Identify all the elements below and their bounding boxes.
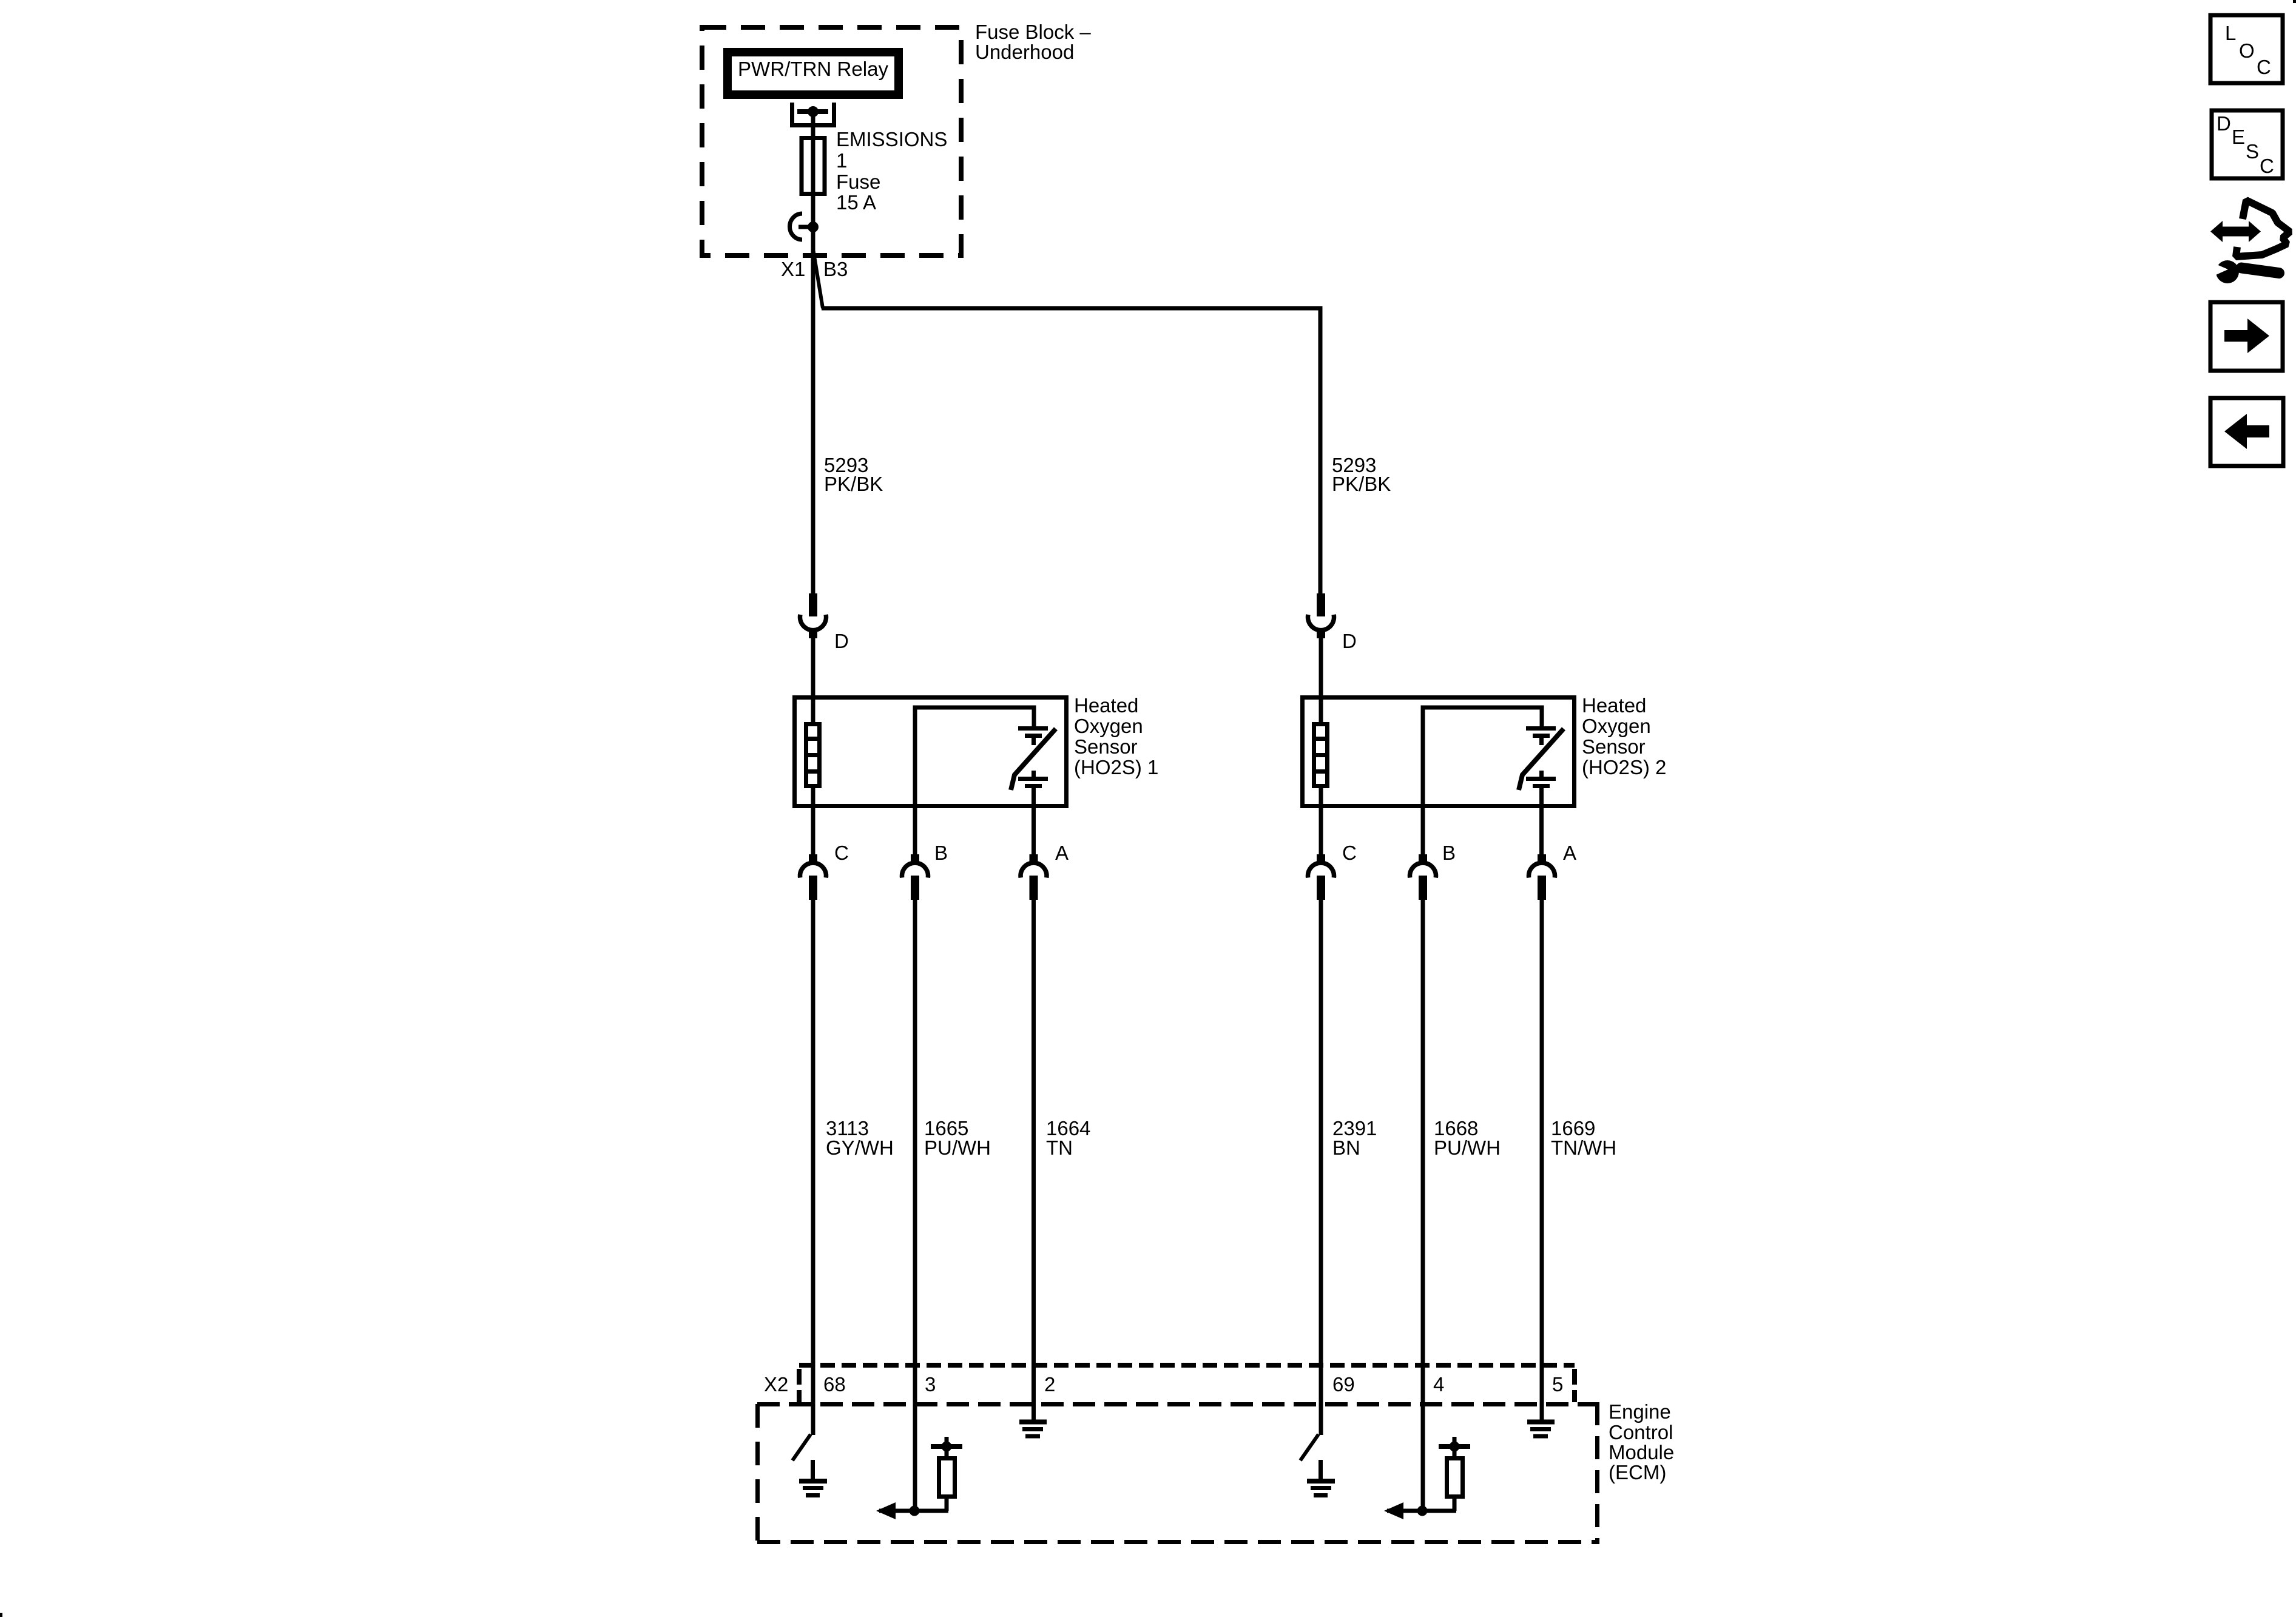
svg-text:3: 3 [925,1373,936,1396]
resistor network pin 4 [1417,1506,1428,1516]
svg-text:E: E [2232,126,2245,148]
ECM dashed box bottom edge [757,1540,1599,1544]
sensor cell HO2S2 [1526,726,1556,731]
svg-text:C: C [2260,155,2274,177]
svg-text:BN: BN [1332,1136,1360,1159]
wire heater to box bottom HO2S1 [811,786,815,857]
icon double arrow [2220,227,2251,237]
heater element HO2S1 [806,724,820,786]
svg-text:PWR/TRN Relay: PWR/TRN Relay [738,58,888,80]
wire D to HO2S2 box [1319,637,1323,722]
svg-text:Fuse Block –: Fuse Block – [975,21,1091,43]
ECM dashed box top edge [757,1402,1599,1406]
svg-text:TN: TN [1046,1136,1073,1159]
svg-text:(HO2S) 2: (HO2S) 2 [1582,756,1666,778]
svg-text:PK/BK: PK/BK [824,473,883,495]
wire branch horizontal to right sensor [822,308,1320,593]
switch pin 68 [792,1434,811,1460]
sensor cell HO2S1 [1018,726,1048,731]
svg-text:1: 1 [836,149,847,172]
connector D right male pin [1317,593,1325,616]
svg-text:X2: X2 [764,1373,788,1396]
icon part outline [2236,200,2290,257]
connector B right [1419,854,1427,862]
connector D left female cup [800,615,826,630]
connector X1 pin B3 slash [813,249,823,308]
wire sensor signal internal HO2S1 [915,707,1034,857]
ECM dashed box left edge [755,1404,760,1544]
svg-text:Control: Control [1609,1421,1673,1443]
icon back arrow box [2210,398,2283,466]
wire relay to fuse to X1 junction [811,112,815,308]
icon forward arrow box [2210,302,2283,371]
svg-text:X1: X1 [781,258,805,280]
svg-text:O: O [2239,39,2255,62]
svg-text:PU/WH: PU/WH [1434,1136,1501,1159]
connector B left [911,854,919,862]
ground pin 68 [811,1460,815,1481]
ground pin 69 [1319,1460,1323,1481]
svg-text:D: D [834,630,849,652]
connector X2 strip right boundary [1572,1369,1577,1402]
fuse F EMISSIONS 1 15A body [802,138,825,194]
HO2S 1 box [795,698,1067,806]
icon DESC box [2212,110,2283,178]
wire pin 68 drop [811,900,815,1435]
svg-text:B: B [934,842,948,864]
svg-text:D: D [1342,630,1357,652]
junction dot at fuse output [808,221,819,232]
svg-text:PU/WH: PU/WH [924,1136,991,1159]
svg-text:EMISSIONS: EMISSIONS [836,128,947,150]
svg-text:Underhood: Underhood [975,41,1074,63]
svg-text:B: B [1442,842,1456,864]
connector D left male pin [809,593,817,616]
svg-text:L: L [2225,22,2236,44]
HO2S 2 box [1303,698,1575,806]
relay contact bracket [792,103,834,126]
svg-text:Sensor: Sensor [1074,735,1138,758]
resistor network pin 3 [910,1506,920,1516]
wire sensor to box bottom HO2S2 [1539,786,1544,857]
wire pin 3 drop [913,900,917,1511]
connector X2 strip left boundary [797,1369,802,1402]
connector C left [809,854,817,862]
svg-text:C: C [2257,56,2271,78]
svg-text:Sensor: Sensor [1582,735,1646,758]
svg-text:(HO2S) 1: (HO2S) 1 [1074,756,1158,778]
relay armature bar [797,109,828,114]
svg-text:Heated: Heated [1582,694,1646,717]
svg-text:69: 69 [1332,1373,1355,1396]
wire pin 5 drop [1540,900,1544,1420]
svg-text:4: 4 [1433,1373,1444,1396]
icon LOC box [2210,15,2283,83]
svg-text:A: A [1055,842,1069,864]
svg-text:Fuse: Fuse [836,170,880,193]
svg-text:C: C [1342,842,1357,864]
ground pin 2 [1019,1420,1047,1425]
svg-text:GY/WH: GY/WH [826,1136,894,1159]
wire heater to box bottom HO2S2 [1319,786,1323,857]
wire pin 2 drop [1032,900,1036,1420]
wire sensor to box bottom HO2S1 [1032,786,1036,857]
connector C right [1317,854,1325,862]
wire left branch down [811,308,815,593]
connector A left [1030,854,1038,862]
svg-text:Oxygen: Oxygen [1074,715,1143,737]
svg-text:Oxygen: Oxygen [1582,715,1651,737]
wire pin 4 drop [1421,900,1425,1511]
svg-text:2: 2 [1044,1373,1055,1396]
fuse block - underhood dashed box [702,27,961,255]
svg-text:S: S [2246,140,2259,163]
wire sensor signal internal HO2S2 [1423,707,1542,857]
wire D to HO2S1 box [811,637,815,722]
icon wrench [2241,268,2279,274]
svg-text:5: 5 [1552,1373,1563,1396]
connector D right female cup [1308,615,1334,630]
svg-text:PK/BK: PK/BK [1332,473,1391,495]
wire pin 69 drop [1319,900,1323,1435]
heater element HO2S2 [1314,724,1328,786]
svg-text:B3: B3 [823,258,848,280]
svg-text:Heated: Heated [1074,694,1138,717]
ground pin 5 [1527,1420,1555,1425]
connector A right [1538,854,1546,862]
switch pin 69 [1300,1434,1319,1460]
svg-text:TN/WH: TN/WH [1551,1136,1616,1159]
connector X2 strip top dashed line [799,1363,1575,1368]
svg-text:Engine: Engine [1609,1400,1671,1423]
svg-text:C: C [834,842,849,864]
svg-text:A: A [1563,842,1576,864]
relay K PWR/TRN Relay box [723,48,903,99]
relay armature junction dot [808,106,819,117]
svg-text:D: D [2217,112,2231,135]
svg-text:Module: Module [1609,1441,1674,1463]
page corner mark bottom left [0,1613,2,1617]
page corner mark top right [2293,0,2296,3]
svg-text:68: 68 [823,1373,846,1396]
terminal clip symbol at fuse output [789,214,802,240]
ECM dashed box right edge [1595,1402,1599,1544]
svg-text:15 A: 15 A [836,191,876,214]
svg-text:(ECM): (ECM) [1609,1461,1666,1484]
